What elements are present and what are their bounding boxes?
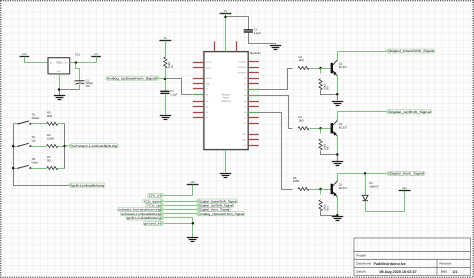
wire harness row schwarz-Lenkradleitung [165, 213, 197, 215]
net label Digital_DownShift_Signal [386, 49, 435, 53]
svg-text:12V: 12V [402, 187, 407, 190]
wire base node to Q3 [321, 189, 332, 191]
wire Arduino D-pin to R2 [259, 69, 293, 90]
power 5V (Arduino VCC) [220, 10, 232, 14]
net label TCU_up (harness in) [146, 203, 164, 207]
wire C1 to ground [165, 94, 167, 115]
svg-text:7805: 7805 [56, 60, 63, 64]
ground (regulator) [54, 96, 65, 100]
svg-text:BC337: BC337 [339, 127, 348, 130]
net label Digital_Horn_Signal (harness) [196, 208, 230, 212]
svg-text:ground_in: ground_in [144, 222, 161, 226]
ground (Q1) [332, 162, 343, 166]
svg-text:PaddleArduino.fzz: PaddleArduino.fzz [374, 262, 406, 266]
wire regulator OUT to 5V [70, 62, 97, 64]
wire to Horn label [338, 173, 387, 175]
svg-text:D0/RX: D0/RX [206, 66, 213, 69]
net label ground_in (harness in) [144, 221, 165, 225]
voltage regulator IC1 7805 [48, 58, 70, 74]
capacitor C1 2.2uF [160, 90, 177, 96]
svg-text:510Ω: 510Ω [47, 136, 54, 140]
wire 12V to regulator IN [25, 57, 49, 63]
ground (analog filter) [160, 116, 171, 120]
ground (Q3) [332, 217, 343, 221]
svg-text:+: + [73, 79, 75, 83]
wire R8 to emitter node [321, 151, 338, 155]
capacitor C2 100uF [73, 79, 93, 88]
wire to DownShift label [338, 51, 387, 53]
svg-text:Down: Down [32, 116, 40, 120]
wire R3 to right bus [58, 123, 65, 125]
net label Digital_UpShift_Signal [386, 110, 431, 114]
wire base node down to R10 [320, 190, 322, 195]
wire base node to Q2 [321, 68, 332, 70]
resistor R6 2200 [293, 176, 309, 191]
net label gelb-Lenkradleitung [68, 183, 105, 187]
svg-text:D12/MISO: D12/MISO [237, 66, 247, 69]
junction ground_in node [192, 222, 195, 225]
svg-text:gelb-Lenkradleitung: gelb-Lenkradleitung [72, 183, 105, 187]
resistor R8 10k pull-down [319, 139, 330, 150]
svg-text:R7: R7 [171, 64, 174, 68]
wire harness row TCU_down [165, 201, 197, 203]
svg-text:Analog_UpDownHorn_Signal: Analog_UpDownHorn_Signal [200, 212, 245, 216]
wire Q3 emitter down [337, 197, 339, 216]
wire to ground Q2 [337, 95, 339, 101]
wire horn node down to D1 [365, 174, 367, 196]
wire R10 to emitter node [321, 211, 338, 216]
svg-text:(Rev3.0): (Rev3.0) [221, 100, 231, 103]
ground (Q2) [332, 102, 343, 106]
wire Q3 collector up [337, 174, 339, 182]
wire harness row ground_in [165, 223, 193, 225]
wire Arduino D-pin to R6 [259, 113, 293, 190]
svg-text:Dateiname: Dateiname [356, 262, 371, 266]
svg-text:D13/SCK: D13/SCK [238, 60, 247, 63]
wire bus to S3 [14, 168, 19, 170]
wire S3 to R5 [31, 168, 47, 170]
switch S3 Horn [18, 157, 39, 169]
svg-text:08 Aug 2020 16:52:27: 08 Aug 2020 16:52:27 [380, 270, 417, 274]
svg-text:Digital_Horn_Signal: Digital_Horn_Signal [390, 172, 425, 176]
svg-text:12V: 12V [22, 53, 27, 56]
ground (harness) [187, 238, 198, 242]
svg-text:1kΩ: 1kΩ [299, 58, 304, 62]
svg-text:D1/TX: D1/TX [206, 61, 212, 64]
junction emitter node Q2 [336, 93, 339, 96]
wire regulator GND down [59, 74, 61, 90]
svg-text:D11/MOSI: D11/MOSI [237, 72, 247, 75]
wire R6 to base node Q3 [310, 189, 321, 191]
svg-text:GND: GND [242, 138, 247, 141]
power 5V (regulator output) [91, 53, 101, 57]
net label Digital_DownShift_Signal (harness) [196, 199, 237, 203]
wire base node down to R9 [320, 69, 322, 74]
transistor Q3 BC337 [332, 181, 348, 197]
wire harness row TCU_up [165, 205, 197, 207]
Arduino right pin row [237, 60, 259, 147]
wire right resistor bus [64, 124, 66, 169]
wire base node to Q1 [321, 128, 332, 130]
power 5V (analog pull-up) [159, 37, 171, 41]
wire switch common bus to gelb label [14, 124, 71, 186]
svg-text:5V: 5V [224, 10, 227, 13]
wire Q2 collector up [337, 52, 339, 61]
svg-text:VIN: VIN [243, 144, 247, 147]
wire R1 to base node Q1 [310, 128, 321, 130]
svg-text:OUT: OUT [63, 62, 68, 65]
svg-text:Analog_UpDownHorn_Signal: Analog_UpDownHorn_Signal [107, 76, 157, 80]
power 12V (harness in) [187, 181, 199, 185]
net label schwarz-Lenkradleitung (harness in) [121, 212, 165, 216]
wire 5V node to C3 [226, 17, 249, 30]
junction analog node [164, 78, 167, 81]
junction 5V node [224, 16, 227, 19]
junction base node Q1 [319, 127, 322, 130]
Arduino left pin row [193, 61, 213, 120]
svg-text:1/1: 1/1 [452, 270, 457, 274]
svg-text:Horn: Horn [32, 160, 39, 164]
junction base node Q2 [319, 67, 322, 70]
wire R9 to emitter node [321, 90, 338, 95]
net label schwarz-Lenkradleitung [69, 144, 119, 148]
power +12V (regulator input) [20, 53, 30, 57]
wire analog node to Arduino A-pin [165, 79, 193, 95]
wire label stub analog [158, 78, 165, 80]
junction horn node [364, 172, 367, 175]
svg-text:10V: 10V [85, 85, 90, 88]
resistor R1 1k [298, 115, 309, 130]
svg-text:12V_in: 12V_in [148, 194, 161, 198]
svg-text:gelb-Lenkradleitung: gelb-Lenkradleitung [127, 216, 161, 220]
svg-text:1kΩ: 1kΩ [299, 119, 304, 123]
capacitor C3 2.2uF [244, 29, 261, 35]
net label Analog_UpDownHorn_Signal [106, 76, 160, 80]
svg-text:2.2µF: 2.2µF [254, 32, 261, 35]
svg-text:2.2µF: 2.2µF [170, 94, 177, 97]
svg-text:R8: R8 [327, 146, 330, 150]
junction emitter node Q1 [336, 153, 339, 156]
svg-text:0Ω: 0Ω [47, 158, 51, 162]
wire S2 to R4 [31, 146, 47, 148]
wire to ground Q3 [337, 216, 339, 217]
wire D1 to 12V [366, 191, 405, 212]
svg-text:RESET: RESET [206, 77, 213, 80]
svg-text:Bauteil1: Bauteil1 [250, 51, 261, 55]
resistor R3 2k&#937; [47, 111, 58, 126]
svg-text:Projekt: Projekt [356, 253, 366, 257]
transistor Q1 BC337 [332, 120, 348, 136]
junction left bus S2 [12, 145, 15, 148]
svg-text:BC337: BC337 [339, 66, 348, 69]
wire harness row schwarz-Hornansteuerung [165, 209, 197, 211]
switch S2 Up [18, 135, 36, 147]
svg-text:Digital_DownShift_Signal: Digital_DownShift_Signal [390, 49, 435, 53]
wire 5V down to Arduino 5V pin [225, 14, 227, 52]
junction emitter node Q3 [336, 214, 339, 217]
diode D1 1N4007 [362, 182, 379, 201]
wire C2 bottom to ground node [60, 89, 80, 91]
wire 12V to 12V_in [164, 185, 193, 196]
svg-text:schwarz-Lenkradleitung: schwarz-Lenkradleitung [72, 144, 118, 148]
wire bus to S2 [14, 146, 19, 148]
svg-text:12V: 12V [190, 181, 195, 184]
wire to UpShift label [338, 111, 387, 113]
wire to ground bars [59, 90, 61, 96]
svg-text:Blatt: Blatt [441, 270, 447, 274]
wire to schwarz label [65, 146, 69, 147]
svg-text:BC337: BC337 [339, 187, 348, 190]
resistor R9 10k pull-down [319, 79, 330, 90]
wire R4 to right bus [58, 146, 65, 148]
junction base node Q3 [319, 188, 322, 191]
wire C3 to ground [249, 33, 276, 45]
ground (Arduino) [220, 174, 231, 178]
junction schwarz node [63, 145, 66, 148]
wire base node down to R8 [320, 129, 322, 134]
resistor R2 1k [298, 55, 309, 70]
svg-text:Up: Up [32, 138, 36, 142]
wire R7 to node/C1 [165, 69, 167, 92]
wire Q2 emitter down [337, 76, 339, 95]
wire 5V to R7 [165, 41, 167, 58]
power 12V (horn) [399, 187, 411, 191]
net label Digital_UpShift_Signal (harness) [196, 203, 234, 207]
svg-text:Datum: Datum [356, 270, 366, 274]
title block frame [354, 238, 471, 275]
wire C2 bottom down [79, 85, 81, 90]
wire to ground Q1 [337, 155, 339, 162]
Arduino top pins [215, 41, 237, 51]
svg-text:IC1: IC1 [75, 52, 80, 56]
junction left bus S3 [12, 167, 15, 170]
net label TCU_down (harness in) [143, 199, 165, 203]
svg-text:2kΩ: 2kΩ [47, 114, 52, 118]
transistor Q2 BC337 [332, 60, 348, 76]
wire Q1 emitter down [337, 137, 339, 155]
svg-text:GND: GND [57, 70, 62, 73]
op-amp/mcu module U1 Arduino Nano (Bauteil1) [204, 52, 248, 150]
net label gelb-Lenkradleitung (harness in) [126, 216, 164, 220]
wire bus to S1 [14, 123, 19, 125]
resistor R4 510&#937; [47, 133, 58, 148]
net label schwarz-Hornansteuerung (harness in) [118, 208, 165, 212]
svg-text:2200: 2200 [293, 179, 300, 183]
ground (C3) [270, 46, 281, 50]
svg-text:Digital_UpShift_Signal: Digital_UpShift_Signal [390, 110, 431, 114]
resistor R7 10k pull-up [164, 57, 175, 68]
wire gelb/ground to ground symbol [192, 218, 194, 238]
net label Analog_UpDownHorn_Signal (harness) [196, 212, 245, 216]
wire R2 to base node Q2 [310, 68, 321, 70]
junction regulator output node [75, 61, 78, 64]
svg-text:R10: R10 [327, 205, 330, 210]
resistor R10 10k pull-down [319, 200, 330, 211]
title block text [356, 253, 457, 274]
wire Arduino GND down [225, 150, 227, 173]
wire junction down to C2 [76, 63, 80, 81]
svg-text:R9: R9 [327, 86, 330, 90]
net label 12V_in (harness in) [148, 193, 165, 197]
svg-text:5V: 5V [164, 37, 167, 40]
wire R5 to right bus [58, 168, 65, 170]
wire up to 5V bar [96, 57, 98, 63]
wire harness row gelb-Lenkradleitung [165, 217, 193, 219]
wire Q1 collector up [337, 112, 339, 121]
svg-text:Revision: Revision [440, 262, 452, 266]
wire Arduino D-pin to R1 [259, 96, 293, 129]
svg-text:5V: 5V [95, 53, 98, 56]
junction regulator ground node [58, 88, 61, 91]
wire S1 to R3 [31, 123, 47, 125]
switch S1 Down [18, 113, 40, 125]
net label Digital_Horn_Signal [386, 171, 425, 175]
svg-text:1N4007: 1N4007 [369, 185, 379, 188]
svg-text:GND: GND [206, 82, 211, 85]
resistor R5 0&#937; [47, 155, 58, 170]
